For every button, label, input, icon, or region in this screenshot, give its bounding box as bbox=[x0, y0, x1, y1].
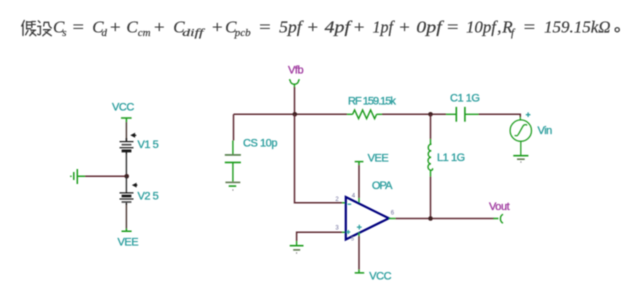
svg-text:1pf: 1pf bbox=[373, 18, 396, 37]
opamp minus mark bbox=[348, 203, 352, 205]
svg-text:+: + bbox=[354, 18, 365, 37]
svg-text:CS 10p: CS 10p bbox=[243, 138, 277, 150]
svg-text:+: + bbox=[154, 18, 165, 37]
junction dot top right bbox=[428, 112, 433, 117]
opamp plus mark pin3 bbox=[346, 230, 350, 234]
wire V2 to VEE bbox=[125, 205, 127, 229]
formula text bbox=[53, 18, 611, 40]
inductor L1 bbox=[428, 139, 433, 177]
battery V1 bbox=[120, 138, 134, 154]
wire junction to V2 bbox=[125, 176, 127, 193]
pin5 stub bbox=[358, 233, 360, 237]
polarity mark V1 bbox=[130, 133, 136, 138]
wire C1 to Vin bbox=[479, 114, 521, 117]
svg-text:+: + bbox=[399, 18, 410, 37]
wire Vfb corner to pin2 bbox=[295, 114, 343, 203]
polarity plus Vin bbox=[526, 112, 531, 117]
svg-text:s: s bbox=[62, 27, 66, 39]
terminal Vfb bbox=[289, 79, 299, 87]
formula hanzi jiashe bbox=[22, 21, 52, 36]
ground at pin3 bbox=[290, 241, 304, 253]
junction dot Vfb bbox=[293, 112, 298, 117]
wire ground to pin3 bbox=[297, 232, 342, 241]
wire L1 to output bbox=[430, 177, 432, 219]
svg-text:Vout: Vout bbox=[489, 201, 510, 213]
svg-text:3: 3 bbox=[335, 226, 339, 232]
pin3 stub bbox=[342, 231, 347, 233]
svg-text:4: 4 bbox=[352, 194, 356, 200]
wire VEE to opamp bbox=[358, 165, 360, 198]
terminal VCC (left) bbox=[121, 118, 132, 122]
svg-text:L1 1G: L1 1G bbox=[437, 152, 465, 164]
inductor L1 wire top bbox=[430, 114, 432, 139]
terminal Vout bbox=[493, 214, 503, 223]
svg-text:,: , bbox=[497, 18, 501, 37]
svg-text:cm: cm bbox=[138, 27, 151, 39]
source Vin bbox=[510, 117, 531, 155]
terminal VEE (opamp) bbox=[355, 162, 364, 165]
svg-text:C: C bbox=[126, 18, 138, 37]
svg-text:Vfb: Vfb bbox=[288, 64, 303, 76]
svg-text:VCC: VCC bbox=[112, 102, 134, 114]
svg-text:VEE: VEE bbox=[368, 152, 389, 164]
svg-text:V2 5: V2 5 bbox=[138, 191, 159, 203]
svg-text:=: = bbox=[73, 18, 85, 37]
svg-text:+: + bbox=[212, 18, 223, 37]
svg-text:=: = bbox=[259, 18, 271, 37]
svg-text:=: = bbox=[447, 18, 459, 37]
wire VCC to V1 bbox=[125, 122, 127, 141]
opamp plus mark inner bbox=[357, 225, 362, 230]
wire CS top bbox=[233, 114, 235, 140]
svg-text:d: d bbox=[102, 27, 108, 39]
op-amp U1 triangle bbox=[346, 197, 389, 240]
svg-text:C1 1G: C1 1G bbox=[450, 93, 480, 105]
svg-text:=: = bbox=[524, 18, 536, 37]
wire output bbox=[396, 218, 495, 220]
svg-text:159.15kΩ: 159.15kΩ bbox=[544, 18, 611, 37]
svg-text:6: 6 bbox=[391, 211, 395, 217]
ground below CS bbox=[225, 182, 240, 190]
svg-text:+: + bbox=[110, 18, 121, 37]
svg-text:pcb: pcb bbox=[234, 27, 251, 39]
wire CS corner to RF bbox=[234, 113, 348, 115]
svg-text:VCC: VCC bbox=[369, 271, 391, 283]
ground below Vin bbox=[513, 156, 528, 162]
pin4 stub bbox=[358, 198, 360, 204]
wire opamp to VCC bbox=[358, 236, 360, 270]
svg-text:Vin: Vin bbox=[538, 125, 553, 137]
svg-text:RF 159.15k: RF 159.15k bbox=[348, 96, 396, 108]
polarity mark V2 bbox=[132, 183, 138, 188]
svg-text:5: 5 bbox=[351, 237, 354, 243]
svg-text:10pf: 10pf bbox=[466, 18, 498, 37]
svg-text:diff: diff bbox=[182, 27, 206, 39]
svg-text:V1 5: V1 5 bbox=[138, 139, 159, 151]
input terminal (left jack) bbox=[70, 169, 85, 184]
wire RF to C1 junction bbox=[382, 113, 446, 115]
junction dot left bbox=[124, 174, 129, 179]
terminal VCC (opamp) bbox=[355, 270, 365, 273]
wire Vfb down bbox=[294, 87, 296, 114]
svg-text:f: f bbox=[511, 27, 516, 39]
svg-text:0pf: 0pf bbox=[416, 18, 444, 37]
capacitor C1 bbox=[446, 107, 479, 122]
junction dot output bbox=[428, 216, 433, 221]
wire jack to junction bbox=[85, 175, 126, 177]
capacitor CS bbox=[225, 141, 241, 182]
battery V2 bbox=[120, 193, 134, 205]
wire V1 to junction bbox=[125, 154, 127, 176]
pin6 stub bbox=[389, 218, 396, 220]
formula full stop bbox=[615, 28, 619, 32]
svg-text:OPA: OPA bbox=[372, 180, 393, 192]
resistor RF bbox=[347, 110, 382, 119]
svg-text:4pf: 4pf bbox=[325, 18, 353, 37]
svg-text:+: + bbox=[308, 18, 319, 37]
svg-text:VEE: VEE bbox=[118, 236, 139, 248]
pin2 stub bbox=[342, 202, 347, 204]
svg-text:5pf: 5pf bbox=[279, 18, 304, 37]
terminal VEE (left) bbox=[122, 229, 132, 232]
